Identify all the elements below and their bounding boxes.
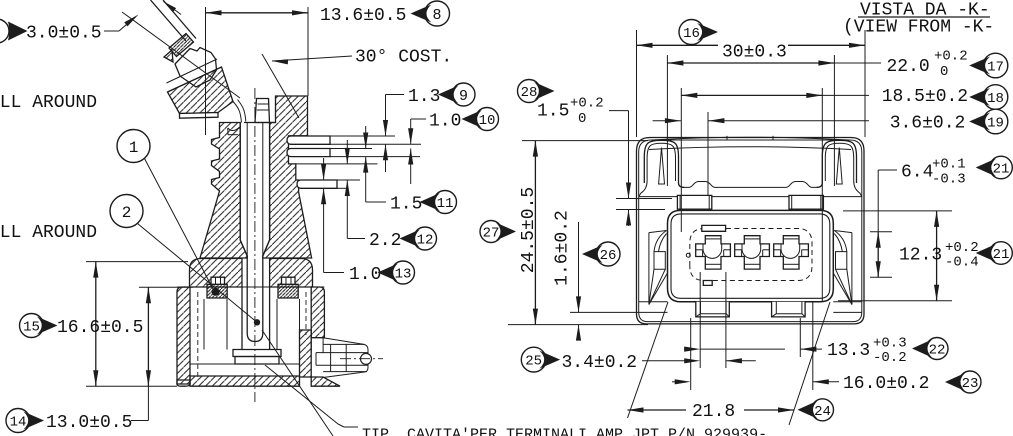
svg-text:(VIEW FROM -K-: (VIEW FROM -K- [843, 17, 994, 37]
svg-text:13: 13 [395, 267, 412, 283]
svg-text:6.4: 6.4 [901, 162, 933, 182]
svg-text:1.3: 1.3 [408, 87, 440, 107]
svg-text:1.0: 1.0 [429, 111, 461, 131]
svg-text:11: 11 [437, 196, 454, 212]
svg-text:15: 15 [23, 320, 40, 336]
svg-text:-0.4: -0.4 [945, 255, 979, 271]
svg-text:25: 25 [525, 354, 542, 370]
svg-text:+0.2: +0.2 [570, 96, 604, 112]
svg-text:-0.2: -0.2 [873, 350, 907, 366]
svg-text:26: 26 [600, 248, 617, 264]
svg-text:2.2: 2.2 [369, 231, 401, 251]
svg-text:1.6±0.2: 1.6±0.2 [552, 210, 572, 286]
svg-text:16.6±0.5: 16.6±0.5 [57, 318, 143, 338]
svg-text:+0.1: +0.1 [932, 157, 966, 173]
svg-text:13.3: 13.3 [827, 341, 870, 361]
svg-text:3.4±0.2: 3.4±0.2 [562, 353, 638, 373]
svg-text:23: 23 [962, 376, 979, 392]
svg-text:TIP. CAVITA'PER TERMINALI AMP: TIP. CAVITA'PER TERMINALI AMP JPT P/N 92… [362, 427, 767, 436]
svg-text:+0.2: +0.2 [934, 49, 968, 65]
svg-text:21.8: 21.8 [692, 402, 735, 422]
svg-text:17: 17 [987, 60, 1004, 76]
svg-text:30±0.3: 30±0.3 [722, 42, 787, 62]
svg-text:19: 19 [987, 116, 1004, 132]
svg-text:ALL AROUND: ALL AROUND [0, 223, 97, 243]
svg-text:9: 9 [459, 88, 468, 105]
svg-text:13.0±0.5: 13.0±0.5 [46, 413, 132, 433]
svg-text:1.5: 1.5 [537, 101, 569, 121]
svg-text:24.5±0.5: 24.5±0.5 [519, 187, 539, 273]
svg-text:8: 8 [432, 7, 441, 24]
svg-text:1: 1 [129, 139, 139, 157]
svg-text:13.6±0.5: 13.6±0.5 [320, 6, 406, 26]
svg-text:30° COST.: 30° COST. [355, 47, 452, 67]
svg-text:16.0±0.2: 16.0±0.2 [843, 374, 929, 394]
svg-text:0: 0 [578, 111, 586, 127]
svg-text:3.6±0.2: 3.6±0.2 [890, 113, 966, 133]
svg-text:0: 0 [940, 64, 948, 80]
svg-text:16: 16 [683, 26, 700, 42]
svg-text:18.5±0.2: 18.5±0.2 [882, 87, 968, 107]
svg-text:1.0: 1.0 [349, 265, 381, 285]
svg-text:28: 28 [521, 85, 538, 101]
svg-text:21: 21 [993, 162, 1010, 178]
svg-text:22: 22 [929, 343, 946, 359]
svg-text:24: 24 [814, 404, 831, 420]
svg-text:10: 10 [479, 113, 496, 129]
svg-text:2: 2 [122, 204, 132, 222]
svg-text:1.5: 1.5 [390, 194, 422, 214]
svg-text:14: 14 [10, 415, 27, 431]
svg-text:12: 12 [417, 233, 434, 249]
svg-text:3.0±0.5: 3.0±0.5 [26, 23, 102, 43]
svg-text:ALL AROUND: ALL AROUND [0, 93, 97, 113]
svg-text:21: 21 [993, 247, 1010, 263]
svg-text:18: 18 [987, 91, 1004, 107]
svg-text:12.3: 12.3 [899, 245, 942, 265]
svg-text:22.0: 22.0 [887, 57, 930, 77]
svg-text:-0.3: -0.3 [932, 172, 966, 188]
svg-text:27: 27 [483, 226, 500, 242]
